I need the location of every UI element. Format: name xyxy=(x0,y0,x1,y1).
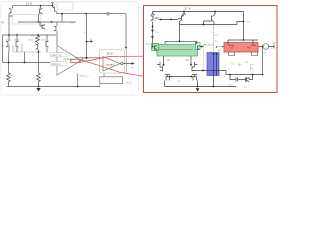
transistor Q5 xyxy=(54,22,57,46)
svg-text:Di: Di xyxy=(2,22,5,25)
wire source down xyxy=(262,47,264,75)
pink gate node line xyxy=(228,40,258,44)
wire out right of cap xyxy=(225,71,227,75)
svg-text:x:1: x:1 xyxy=(215,34,219,37)
junction R23b at 262.5,74.5 xyxy=(262,74,264,76)
svg-text:(x:1): (x:1) xyxy=(14,38,19,41)
transistor Q2 xyxy=(39,6,43,22)
junction R16 at 191,64.5 xyxy=(190,64,192,66)
junction R2 at 215,11.5 xyxy=(214,11,216,13)
tail mirror transistor R xyxy=(192,75,198,87)
svg-text:m: m xyxy=(245,86,247,89)
junction L15 at 126,47.5 xyxy=(125,47,127,49)
svg-text:nfet (x:1): nfet (x:1) xyxy=(52,63,62,66)
junction R3 at 161,19.5 xyxy=(160,19,162,21)
current arrow y41.5 xyxy=(87,41,91,43)
blue cap highlight xyxy=(207,53,219,76)
svg-text:pfet (1:x): pfet (1:x) xyxy=(52,54,62,57)
wire q1 emitter down xyxy=(8,16,10,35)
A2 output circle xyxy=(121,62,123,64)
current source circle xyxy=(263,44,269,50)
wire under amp xyxy=(77,74,79,87)
bus y62.5 xyxy=(3,62,55,64)
junction R20 at 230,74.5 xyxy=(229,74,231,76)
dashed feed green out xyxy=(203,47,205,71)
svg-text:M2: M2 xyxy=(186,59,190,62)
dashed feed to cap xyxy=(213,25,215,53)
transistor Q4 xyxy=(40,22,45,29)
feedback block xyxy=(100,77,123,84)
junction R22 at 197.5,86.5 xyxy=(197,86,199,88)
resistor Rb xyxy=(36,36,40,44)
tail gate wire xyxy=(170,76,192,78)
junction R24 at 213.5,54 xyxy=(213,53,215,55)
junction R4 at 171,19.5 xyxy=(170,19,172,21)
frame of left schematic xyxy=(1,2,139,96)
junction R7 at 179.5,41.3 xyxy=(179,40,181,42)
wire to transistor m xyxy=(238,79,244,81)
svg-text:Pₒ: Pₒ xyxy=(132,67,135,70)
svg-text:M4: M4 xyxy=(247,45,251,49)
wire A1 out xyxy=(75,58,103,61)
junction R9 at 243.5,40 xyxy=(243,39,245,41)
transistor M1 xyxy=(6,35,9,52)
arrowhead A2 out xyxy=(132,62,135,65)
green left tab xyxy=(152,44,159,51)
diff transistor L xyxy=(157,62,164,72)
transistor P2 xyxy=(178,12,186,25)
junction R21 at 252.5,74.5 xyxy=(252,74,254,76)
leader line A xyxy=(80,56,143,62)
blue cap drop xyxy=(213,76,215,87)
transistor M2 xyxy=(16,35,19,52)
junction R11 at 152.5,46.5 xyxy=(152,46,154,48)
op-amp A2 xyxy=(103,57,120,72)
svg-text:(x:1): (x:1) xyxy=(28,38,33,41)
svg-text:M1: M1 xyxy=(167,59,171,62)
svg-text:O: O xyxy=(264,52,266,55)
big red box xyxy=(144,6,278,93)
top rail 1 xyxy=(13,5,53,7)
right text labels xyxy=(146,7,277,89)
junction L12 at 24.5,62.5 xyxy=(24,62,26,64)
svg-text:Hamp2: Hamp2 xyxy=(106,63,115,67)
wire P2 drain down xyxy=(179,25,181,42)
svg-text:MUX: MUX xyxy=(126,81,132,84)
wire rail corner down xyxy=(243,12,245,41)
svg-text:17 V: 17 V xyxy=(26,1,32,5)
junction L2 at 52.5,5.7 xyxy=(52,5,54,7)
svg-text:M3: M3 xyxy=(230,45,234,49)
nfet label box xyxy=(50,62,67,66)
tail mirror transistor L xyxy=(165,75,171,87)
bottom rail xyxy=(7,86,101,88)
pink mirror highlight xyxy=(224,43,258,53)
green mirror highlight xyxy=(157,45,198,57)
svg-text:17 V: 17 V xyxy=(185,7,191,11)
wire x8.5 down xyxy=(8,52,10,73)
faint upper branch glyph xyxy=(238,63,254,71)
bus y22 xyxy=(18,21,76,23)
output node wire y74.5 xyxy=(226,74,263,76)
left text labels xyxy=(2,1,135,84)
branch down left xyxy=(230,75,236,80)
transistor Q3 xyxy=(51,3,57,14)
wire A2 out arrow xyxy=(123,63,131,65)
svg-text:wfet: wfet xyxy=(146,43,151,46)
wire long vertical x126.5 xyxy=(126,49,128,73)
wire right drop xyxy=(125,14,127,49)
junction R10 at 262.5,46.5 xyxy=(262,46,264,48)
junction R5 at 152.5,26.5 xyxy=(152,26,154,28)
junction L3 at 62,13.7 xyxy=(61,13,63,15)
junction L11 at 8.5,62.5 xyxy=(8,62,10,64)
junction R18 at 170,76.5 xyxy=(169,76,171,78)
junction R23 at 213.5,86.5 xyxy=(213,86,215,88)
node circle source xyxy=(107,12,110,15)
transistor m glyph xyxy=(244,77,253,82)
wire x24.5 drop xyxy=(24,52,26,63)
cap plates xyxy=(214,53,217,76)
junction L9 at 38,35 xyxy=(37,34,39,36)
junction R13 at 216.5,47 xyxy=(216,46,217,47)
cap C2 xyxy=(236,78,238,82)
junction dots right xyxy=(152,11,264,92)
node circle left xyxy=(7,45,9,47)
svg-text:1:K: 1:K xyxy=(177,79,181,82)
svg-text:m: m xyxy=(72,22,74,25)
transistor P1 xyxy=(151,12,159,21)
wire x38.5 down xyxy=(38,52,40,73)
junction L17 at 77.7,86.5 xyxy=(77,86,79,88)
svg-text:pfet (x:1): pfet (x:1) xyxy=(203,43,213,46)
ground xyxy=(36,88,40,92)
transistor M4 xyxy=(46,35,49,53)
step wire to mirror gate xyxy=(237,22,244,25)
gray amp box 15V xyxy=(100,50,125,74)
resistor R2 xyxy=(37,73,41,87)
wire to vb xyxy=(269,45,274,49)
svg-text:1:1: 1:1 xyxy=(247,21,251,24)
wire pink out right xyxy=(258,46,263,48)
green right tab xyxy=(196,43,201,50)
gray group box 2 xyxy=(57,2,73,10)
wire x86.5 xyxy=(86,14,88,58)
green mirror gate wire xyxy=(158,49,193,51)
leader line B xyxy=(80,59,143,76)
junction L4 at 86,13.7 xyxy=(85,13,87,15)
diff transistor R xyxy=(191,62,198,72)
transistor pink B xyxy=(251,44,258,56)
svg-text:(1:x): (1:x) xyxy=(6,38,11,41)
wire green out xyxy=(200,46,204,48)
green mirror transistor R xyxy=(196,43,200,50)
junction R6 at 203.5,24.5 xyxy=(203,24,205,26)
junction L8 at 17,35 xyxy=(16,34,18,36)
rail C xyxy=(3,34,57,36)
transistor pink A xyxy=(228,44,235,56)
junction R14 at 222.8,46.6 xyxy=(222,46,223,47)
gate line top mirror xyxy=(159,19,179,21)
junction L14 at 86.5,57.8 xyxy=(85,57,87,59)
bottom rail right xyxy=(165,86,237,88)
small red rect xyxy=(71,59,80,62)
diff drain wires xyxy=(164,56,192,65)
transistor Q1 xyxy=(9,6,13,16)
junction L16 at 38.5,86.5 xyxy=(38,86,40,88)
wire P1 drain down + arrow xyxy=(152,22,154,43)
junction R25 at 216.5,54 xyxy=(216,53,218,55)
transistor M3 xyxy=(36,43,39,52)
wire x62 drop xyxy=(61,14,63,22)
junction R17 at 203,70.5 xyxy=(202,70,204,72)
arrowhead y41.5 xyxy=(91,40,94,42)
svg-text:wt(1)Lₘₐₓ: wt(1)Lₘₐₓ xyxy=(79,75,89,78)
resistor R1 xyxy=(7,73,11,87)
pfet label box xyxy=(50,53,67,57)
junction R15 at 163.5,64.5 xyxy=(163,64,165,66)
wire P2 out right xyxy=(180,24,238,26)
junction L6 at 51.5,22 xyxy=(51,21,53,23)
svg-text:(1:x): (1:x) xyxy=(41,38,46,41)
gates node line green xyxy=(165,41,197,44)
transistor Q3r xyxy=(204,12,216,25)
junction R12 at 201.5,46.5 xyxy=(201,46,203,48)
svg-text:Tw: Tw xyxy=(218,49,221,52)
pin ticks xyxy=(1,22,4,46)
left edge spine xyxy=(2,35,4,63)
junction R8 at 243.5,21.5 xyxy=(243,21,245,23)
junction R19 at 191.5,76.5 xyxy=(191,76,193,78)
junction L13 at 86.5,41.5 xyxy=(86,41,88,43)
output wire y70.5 xyxy=(194,70,226,72)
op-amp A1 xyxy=(57,46,81,76)
svg-text:15 V: 15 V xyxy=(107,52,113,56)
green mirror transistor L xyxy=(153,44,157,52)
junction R1 at 184,11.5 xyxy=(183,11,185,13)
wire cap top link xyxy=(217,46,224,48)
junction L10 at 38.5,52 xyxy=(38,51,40,53)
top rail right xyxy=(153,11,244,13)
feedback wire xyxy=(103,73,105,77)
junction dots left xyxy=(8,5,135,92)
wire rail riser xyxy=(99,84,101,87)
junction L7 at 9,35 xyxy=(8,34,10,36)
junction L1 at 40.5,5.7 xyxy=(40,5,42,7)
branch up right xyxy=(252,75,254,80)
junction L5 at 38.5,22 xyxy=(38,21,40,23)
ground arrow right xyxy=(196,88,200,91)
gray step wire xyxy=(13,44,41,52)
wire rail2 xyxy=(57,13,126,15)
svg-text:Vb: Vb xyxy=(273,42,277,45)
gray group box 1 xyxy=(12,15,41,25)
